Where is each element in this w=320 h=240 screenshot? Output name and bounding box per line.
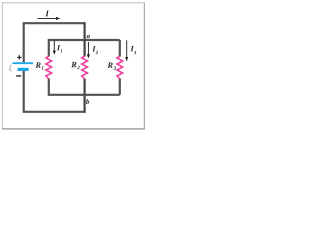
current label I2 (92, 46, 98, 54)
resistor R2 zigzag (82, 56, 88, 79)
emf label (cropped at left) (9, 65, 12, 72)
wire: inner bottom rail from R1 bottom to R3 bottom (49, 79, 120, 95)
current arrow I1 (53, 41, 56, 55)
wire: R3 branch upper stub (119, 40, 121, 57)
wire: down leg into node a (83, 22, 85, 40)
current arrow I (top) (38, 17, 61, 20)
frame border (2, 3, 145, 129)
current label I3 (131, 46, 137, 54)
battery negative plate (short thick) (18, 68, 29, 71)
battery + sign (17, 55, 21, 59)
battery - sign (16, 75, 21, 77)
node a label (87, 35, 90, 38)
wire: R2 branch upper stub below node a (83, 40, 85, 57)
wire: up leg into node b (83, 95, 85, 113)
resistor label R3 (107, 63, 115, 70)
resistor R1 zigzag (46, 56, 52, 79)
battery positive plate (long) (13, 62, 34, 64)
resistor label R1 (35, 62, 43, 69)
current label I (45, 11, 49, 17)
current label I1 (57, 45, 62, 52)
current arrow I3 (125, 40, 128, 61)
wire: top wire from battery up and across to node a branch (24, 23, 85, 62)
node b label (86, 99, 89, 104)
wire: battery bottom down and across bottom to node b (24, 70, 85, 112)
resistor label R2 (71, 62, 79, 69)
resistor R3 zigzag (117, 56, 123, 79)
wire: R3 branch lower stub (119, 79, 121, 95)
current arrow I2 (87, 42, 90, 58)
wire: R2 branch lower stub above node b (83, 79, 85, 95)
wire: inner top rail from R1 top to R3 top (49, 40, 120, 57)
